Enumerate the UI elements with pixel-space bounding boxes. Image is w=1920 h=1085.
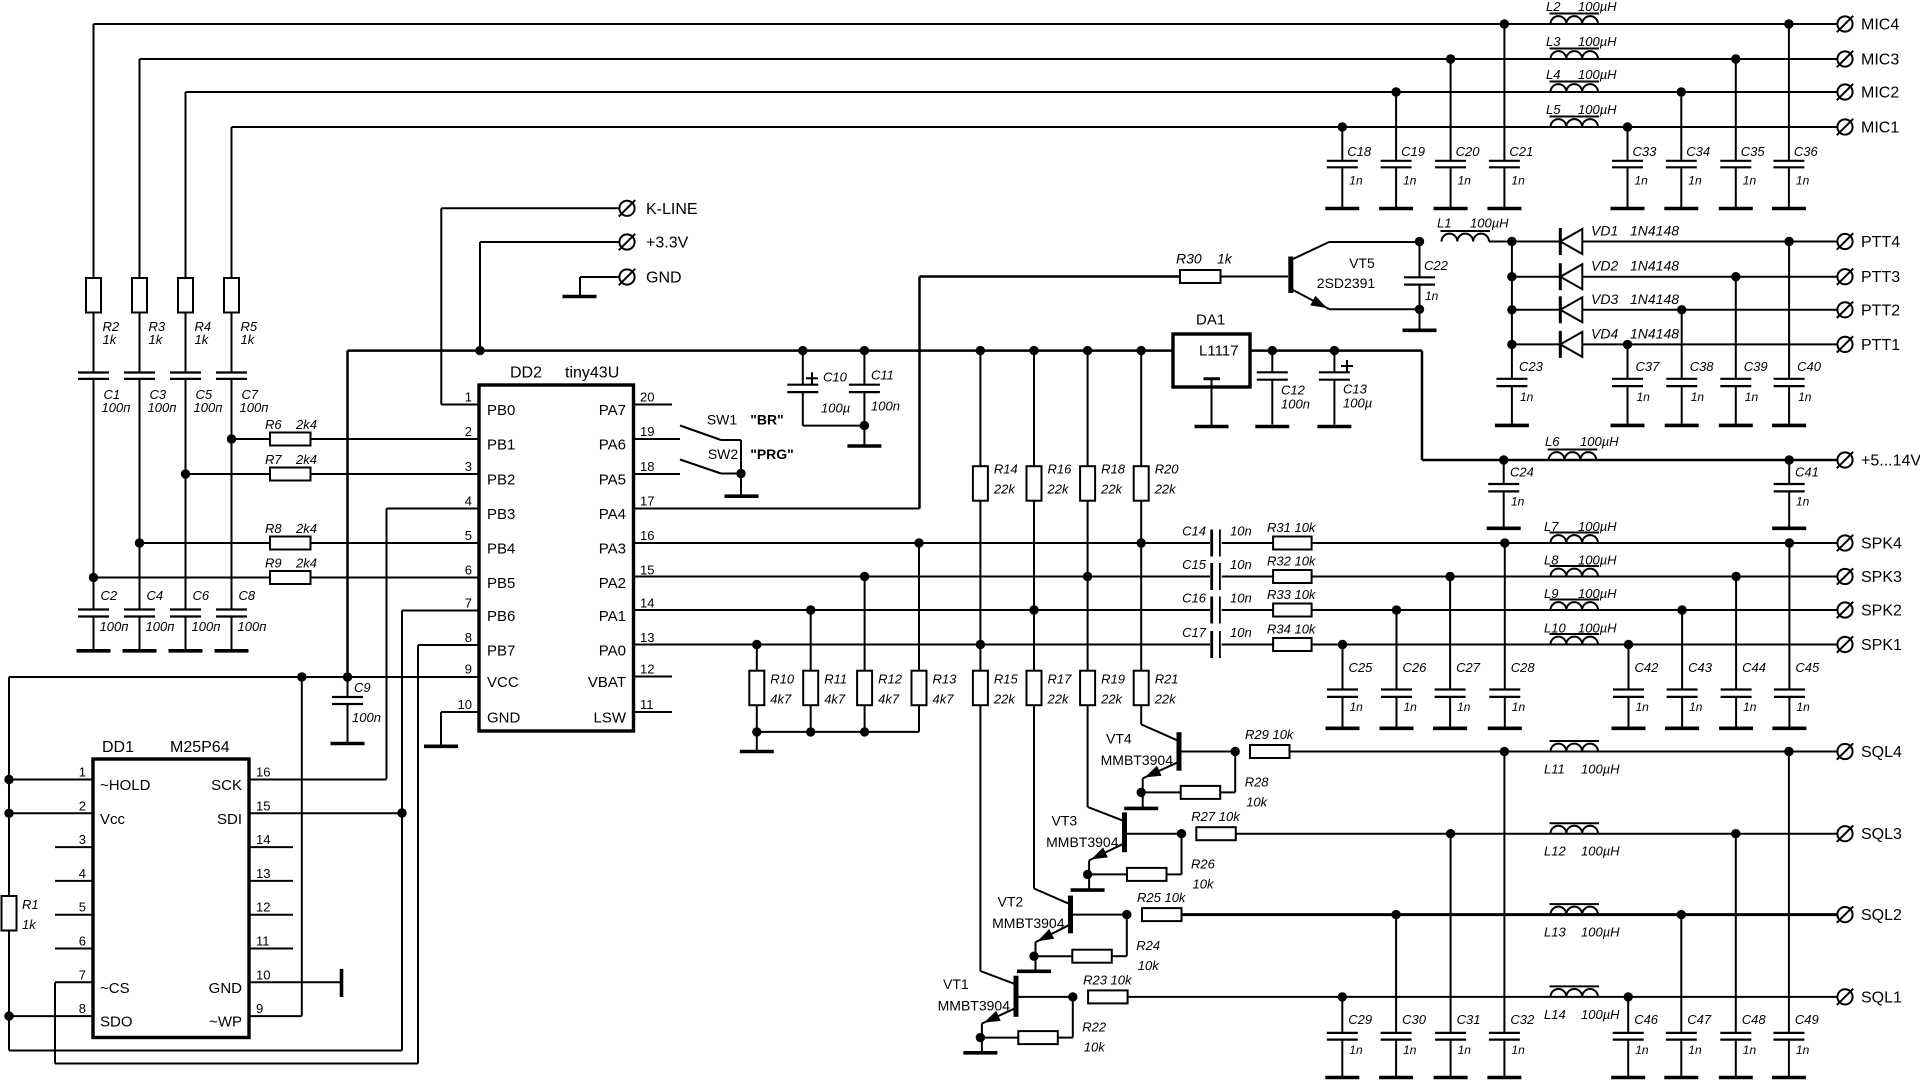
wire R11 vertical <box>810 610 812 732</box>
resistor R17 22k <box>1027 671 1042 706</box>
svg-text:1n: 1n <box>1635 174 1649 188</box>
svg-text:1n: 1n <box>1637 390 1651 404</box>
capacitor C24 <box>1499 455 1508 464</box>
svg-text:100µH: 100µH <box>1578 67 1617 82</box>
svg-text:4k7: 4k7 <box>770 692 792 707</box>
svg-text:SCK: SCK <box>211 777 242 794</box>
capacitor C39 <box>1735 277 1737 379</box>
capacitor C38 <box>1681 310 1683 379</box>
svg-text:1n: 1n <box>1511 174 1525 188</box>
svg-text:PTT1: PTT1 <box>1861 337 1900 354</box>
wire R13 vertical <box>918 543 920 732</box>
ground under C28 <box>1488 726 1522 730</box>
capacitor C7 <box>216 371 247 373</box>
diode VD2 1N4148 <box>1512 276 1560 278</box>
ground under C21 <box>1487 207 1521 211</box>
wire R17 vertical <box>1033 610 1035 889</box>
svg-text:+3.3V: +3.3V <box>646 235 689 252</box>
svg-text:GND: GND <box>487 710 521 727</box>
svg-text:1n: 1n <box>1520 390 1534 404</box>
svg-text:7: 7 <box>465 596 472 611</box>
svg-text:1n: 1n <box>1458 1043 1472 1057</box>
svg-text:DD2: DD2 <box>510 365 542 382</box>
svg-text:C37: C37 <box>1636 359 1661 374</box>
svg-text:100п: 100п <box>146 619 175 634</box>
wire C6 to ground <box>185 617 187 650</box>
resistor R34 10k <box>1273 638 1312 651</box>
svg-text:2: 2 <box>79 798 86 813</box>
wire R16 vertical <box>1029 346 1038 355</box>
terminal MIC3 <box>1837 51 1852 66</box>
svg-text:~HOLD: ~HOLD <box>100 777 151 794</box>
resistor R26 10k <box>1089 873 1127 875</box>
svg-text:R17: R17 <box>1048 672 1073 687</box>
wire R4 to C5 <box>185 313 187 373</box>
svg-text:R24: R24 <box>1136 938 1160 953</box>
switch SW2 PRG <box>680 460 721 474</box>
ground under DA1 <box>1195 425 1229 429</box>
wire VT1 emitter <box>981 1024 983 1052</box>
wire DD1 pin10 GND <box>249 981 340 983</box>
svg-text:R23 10k: R23 10k <box>1083 972 1133 987</box>
svg-text:R25 10k: R25 10k <box>1137 890 1187 905</box>
svg-text:100п: 100п <box>100 619 129 634</box>
svg-text:C27: C27 <box>1456 660 1481 675</box>
ground under C4 <box>123 649 157 653</box>
svg-text:1k: 1k <box>1217 251 1233 267</box>
svg-text:C44: C44 <box>1742 660 1766 675</box>
resistor R28 10k <box>1143 791 1181 793</box>
inductor L5 100uH <box>1551 119 1599 127</box>
svg-text:1: 1 <box>79 765 86 780</box>
svg-text:C49: C49 <box>1795 1012 1819 1027</box>
svg-text:1n: 1n <box>1457 700 1471 714</box>
svg-text:11: 11 <box>256 934 270 949</box>
wire DD1 pin1 ~HOLD <box>9 779 93 781</box>
IC DA1 L1117 <box>1173 334 1250 387</box>
ground under C46 <box>1611 1076 1645 1080</box>
wire R1 to SDO <box>8 931 10 1051</box>
svg-text:16: 16 <box>640 528 654 543</box>
svg-text:L12: L12 <box>1544 844 1566 859</box>
svg-text:1n: 1n <box>1689 700 1703 714</box>
capacitor C3 <box>124 371 155 373</box>
wire VT2 emitter <box>1035 942 1037 970</box>
svg-text:1n: 1n <box>1636 700 1650 714</box>
svg-text:12: 12 <box>640 662 654 677</box>
svg-text:1k: 1k <box>22 917 37 932</box>
svg-text:100n: 100n <box>1281 397 1310 412</box>
svg-text:22k: 22k <box>1154 692 1177 707</box>
svg-text:1n: 1n <box>1691 390 1705 404</box>
svg-text:PB2: PB2 <box>487 472 515 489</box>
wire R22 up to base <box>1058 1037 1073 1039</box>
ground under C26 <box>1380 726 1414 730</box>
wire C17 to R34 <box>1222 644 1273 646</box>
ground under C22 <box>1403 328 1437 332</box>
ground under C39 <box>1719 424 1753 428</box>
ground under C13 <box>1317 425 1351 429</box>
svg-text:100п: 100п <box>194 400 223 415</box>
wire R33 to SPK2 terminal <box>1312 609 1837 611</box>
ground under VT1 emitter <box>963 1051 997 1055</box>
wire R6 left <box>232 438 271 440</box>
svg-text:1k: 1k <box>195 332 210 347</box>
svg-text:1n: 1n <box>1512 700 1526 714</box>
wire DD2 pin10 GND <box>441 711 479 713</box>
svg-text:R8: R8 <box>265 521 282 536</box>
wire VD4 to PTT1 terminal <box>1582 343 1837 345</box>
svg-text:DA1: DA1 <box>1196 312 1225 329</box>
svg-text:L4: L4 <box>1546 67 1560 82</box>
svg-text:100µH: 100µH <box>1578 102 1617 117</box>
svg-text:1k: 1k <box>149 332 164 347</box>
ground under C34 <box>1664 207 1698 211</box>
svg-text:18: 18 <box>640 459 654 474</box>
resistor R5 <box>224 278 239 313</box>
svg-text:R18: R18 <box>1101 462 1126 477</box>
resistor R16 22k <box>1027 466 1042 501</box>
svg-text:2k4: 2k4 <box>295 452 317 467</box>
svg-text:L3: L3 <box>1546 34 1561 49</box>
svg-text:VT1: VT1 <box>943 976 969 992</box>
wire DD2 pin19 PA6 stub <box>634 438 681 440</box>
wire R32 to SPK3 terminal <box>1312 576 1837 578</box>
svg-text:2k4: 2k4 <box>295 417 317 432</box>
svg-text:C36: C36 <box>1794 144 1819 159</box>
ground under C27 <box>1433 726 1467 730</box>
wire VD3 to PTT2 terminal <box>1582 309 1837 311</box>
capacitor C5 <box>170 371 201 373</box>
svg-text:R32 10k: R32 10k <box>1267 554 1317 569</box>
transistor VT4 MMBT3904 <box>1177 732 1182 771</box>
wire R5 column vertical <box>231 127 233 278</box>
svg-text:10n: 10n <box>1230 524 1252 539</box>
ground under VT3 emitter <box>1071 888 1105 892</box>
capacitor C45 <box>1788 543 1790 690</box>
wire R19 vertical <box>1087 577 1089 807</box>
wire C2 to ground <box>93 617 95 650</box>
svg-text:22k: 22k <box>1100 482 1123 497</box>
svg-text:L5: L5 <box>1546 102 1561 117</box>
svg-text:R15: R15 <box>994 672 1019 687</box>
resistor R18 22k <box>1080 466 1095 501</box>
svg-text:4: 4 <box>465 494 472 509</box>
resistor R6 <box>270 433 311 446</box>
wire DD1 pin 13 stub <box>249 880 293 882</box>
svg-text:6: 6 <box>79 934 86 949</box>
ground under C31 <box>1434 1076 1468 1080</box>
svg-text:R33 10k: R33 10k <box>1267 587 1317 602</box>
svg-text:13: 13 <box>640 630 654 645</box>
capacitor C36 <box>1784 19 1793 28</box>
IC DD1 M25P64 <box>93 759 249 1038</box>
wire DD1 pin2 Vcc <box>9 812 93 814</box>
svg-text:C17: C17 <box>1182 625 1207 640</box>
ground under C32 <box>1487 1076 1521 1080</box>
wire R23 to SQL1 <box>1128 996 1837 998</box>
wire +3.3V bus <box>348 349 1174 352</box>
svg-text:R22: R22 <box>1082 1020 1107 1035</box>
svg-text:C16: C16 <box>1182 591 1207 606</box>
diode VD4 1N4148 <box>1512 343 1560 345</box>
svg-text:C34: C34 <box>1686 144 1710 159</box>
svg-text:VT2: VT2 <box>998 894 1024 910</box>
wire C5 to C6 <box>185 379 187 610</box>
svg-text:R34 10k: R34 10k <box>1267 622 1317 637</box>
terminal PTT1 <box>1837 337 1852 352</box>
wire C1 to C2 <box>93 379 95 610</box>
transistor VT1 MMBT3904 <box>1014 976 1019 1017</box>
svg-text:tiny43U: tiny43U <box>565 365 619 382</box>
svg-text:L13: L13 <box>1544 925 1566 940</box>
wire DD1 pin 11 stub <box>249 948 293 950</box>
svg-text:100µH: 100µH <box>1581 1007 1620 1022</box>
svg-text:1n: 1n <box>1796 700 1810 714</box>
capacitor C19 <box>1391 87 1400 96</box>
svg-text:PA1: PA1 <box>599 608 626 625</box>
svg-text:1n: 1n <box>1511 495 1525 509</box>
svg-text:C12: C12 <box>1281 383 1306 398</box>
ground under C40 <box>1772 424 1806 428</box>
inductor L4 100uH <box>1551 84 1599 92</box>
svg-text:100µH: 100µH <box>1578 519 1617 534</box>
resistor R13 4k7 <box>912 671 927 706</box>
svg-text:1n: 1n <box>1743 700 1757 714</box>
ground under C18 <box>1325 207 1359 211</box>
svg-text:C6: C6 <box>193 588 210 603</box>
svg-text:4: 4 <box>79 866 86 881</box>
capacitor C37 <box>1627 344 1629 378</box>
svg-text:PA7: PA7 <box>599 402 626 419</box>
resistor R4 <box>178 278 193 313</box>
wire K-LINE <box>441 207 619 209</box>
svg-text:15: 15 <box>256 798 270 813</box>
terminal SPK4 <box>1837 535 1852 550</box>
wire DD1 pin 14 stub <box>249 846 293 848</box>
terminal SQL3 <box>1837 826 1852 841</box>
svg-text:100µH: 100µH <box>1578 586 1617 601</box>
wire R10 bottom to ground <box>756 732 758 750</box>
svg-text:MMBT3904: MMBT3904 <box>938 997 1011 1013</box>
resistor R31 10k <box>1273 537 1312 550</box>
svg-text:100µH: 100µH <box>1581 925 1620 940</box>
terminal PTT4 <box>1837 234 1852 249</box>
ground under C19 <box>1379 207 1413 211</box>
svg-text:C28: C28 <box>1511 660 1536 675</box>
svg-text:SDO: SDO <box>100 1014 133 1031</box>
svg-text:100п: 100п <box>102 400 131 415</box>
svg-text:PA0: PA0 <box>599 643 626 660</box>
svg-text:PA4: PA4 <box>599 506 626 523</box>
wire DD2 pin8 PB7 down <box>418 644 479 646</box>
svg-text:C33: C33 <box>1633 144 1658 159</box>
svg-text:R12: R12 <box>878 672 903 687</box>
svg-text:1n: 1n <box>1403 174 1417 188</box>
inductor L2 100uH <box>1551 16 1599 24</box>
wire PTT vertical <box>1511 242 1513 379</box>
wire R9 to DD2 <box>311 577 480 579</box>
svg-text:100п: 100п <box>240 400 269 415</box>
wire R10-R13 bottoms <box>757 731 919 733</box>
wire C4 to ground <box>139 617 141 650</box>
resistor R8 <box>270 537 311 550</box>
svg-text:L1117: L1117 <box>1199 343 1239 360</box>
ground under C37 <box>1611 424 1645 428</box>
wire MIC2 line <box>186 91 1838 93</box>
svg-text:100п: 100п <box>192 619 221 634</box>
svg-text:VT4: VT4 <box>1106 731 1132 747</box>
wire L1 to VD1 <box>1489 241 1560 243</box>
capacitor C31 <box>1450 834 1452 1033</box>
wire +5V line <box>1422 459 1837 462</box>
wire VT4 base lead <box>1181 751 1235 753</box>
wire VD2 to PTT3 terminal <box>1582 276 1837 278</box>
svg-text:VD1: VD1 <box>1591 223 1618 239</box>
ground under C38 <box>1665 424 1699 428</box>
svg-text:L14: L14 <box>1544 1007 1566 1022</box>
wire MIC1 line <box>232 126 1838 128</box>
wire PA2 line <box>634 576 1211 578</box>
capacitor C40 <box>1788 242 1790 379</box>
svg-text:1N4148: 1N4148 <box>1630 291 1679 307</box>
terminal K-LINE <box>619 201 634 216</box>
capacitor C46 <box>1627 997 1629 1033</box>
svg-text:C38: C38 <box>1690 359 1715 374</box>
resistor R14 22k <box>973 466 988 501</box>
svg-text:100µH: 100µH <box>1470 216 1509 231</box>
svg-text:MIC4: MIC4 <box>1861 17 1899 34</box>
svg-text:PTT4: PTT4 <box>1861 234 1900 251</box>
svg-text:R13: R13 <box>933 672 958 687</box>
wire C7 to C8 <box>231 379 233 610</box>
svg-text:100µH: 100µH <box>1581 762 1620 777</box>
resistor R3 <box>132 278 147 313</box>
svg-text:SQL4: SQL4 <box>1861 744 1902 761</box>
svg-text:L7: L7 <box>1544 519 1559 534</box>
wire DD2 pin9 VCC line <box>9 676 479 678</box>
capacitor C23 <box>1496 378 1527 380</box>
wire R34 to SPK1 terminal <box>1312 644 1837 646</box>
svg-text:MMBT3904: MMBT3904 <box>1046 834 1119 850</box>
wire PA1 line <box>634 609 1211 611</box>
ground under C12 <box>1255 425 1289 429</box>
resistor R7 <box>270 468 311 481</box>
svg-text:100µ: 100µ <box>1343 396 1372 411</box>
svg-text:16: 16 <box>256 765 270 780</box>
resistor R30 1k <box>1180 270 1221 283</box>
wire DD1 pin16 SCK <box>249 779 387 781</box>
svg-text:22k: 22k <box>1047 692 1070 707</box>
wire DD2 pin1 PB0 <box>441 404 479 406</box>
capacitor C16 series <box>1210 597 1213 624</box>
wire DD2 pin18 PA5 stub <box>634 473 681 475</box>
ground at GND terminal <box>563 295 597 299</box>
inductor L9 100uH <box>1551 602 1599 610</box>
terminal MIC4 <box>1837 16 1852 31</box>
svg-text:C41: C41 <box>1795 465 1819 480</box>
wire R20 vertical <box>1137 346 1146 355</box>
svg-text:15: 15 <box>640 563 654 578</box>
ground under switches <box>725 494 759 498</box>
wire R15 vertical <box>979 645 981 972</box>
wire R8 to DD2 <box>311 542 480 544</box>
svg-text:100µH: 100µH <box>1578 0 1617 14</box>
svg-text:17: 17 <box>640 494 654 509</box>
svg-text:K-LINE: K-LINE <box>646 201 698 218</box>
wire R3 to C3 <box>139 313 141 373</box>
svg-text:1n: 1n <box>1458 174 1472 188</box>
capacitor C10 <box>798 346 807 355</box>
svg-text:C29: C29 <box>1348 1012 1372 1027</box>
svg-text:C13: C13 <box>1343 382 1368 397</box>
wire R2 column vertical <box>93 24 95 278</box>
svg-text:"PRG": "PRG" <box>750 446 794 462</box>
svg-text:100µH: 100µH <box>1580 434 1619 449</box>
capacitor C22 <box>1415 237 1424 246</box>
ground under C29 <box>1325 1076 1359 1080</box>
svg-text:8: 8 <box>79 1001 86 1016</box>
wire DD2 pin12 VBAT stub <box>634 676 673 678</box>
svg-text:1n: 1n <box>1688 174 1702 188</box>
terminal GND <box>619 269 634 284</box>
ground under C23 <box>1495 424 1529 428</box>
svg-text:~CS: ~CS <box>100 980 130 997</box>
svg-text:PB6: PB6 <box>487 608 515 625</box>
capacitor C29 <box>1341 997 1343 1033</box>
wire R4 column vertical <box>185 92 187 278</box>
svg-text:10k: 10k <box>1138 958 1160 973</box>
svg-text:MIC3: MIC3 <box>1861 52 1899 69</box>
ground under VT4 emitter <box>1124 807 1158 811</box>
svg-text:+5...14V: +5...14V <box>1861 453 1920 470</box>
svg-text:100п: 100п <box>238 619 267 634</box>
svg-text:R1: R1 <box>22 897 39 912</box>
svg-text:11: 11 <box>640 697 654 712</box>
svg-text:C40: C40 <box>1797 359 1822 374</box>
terminal SQL4 <box>1837 744 1852 759</box>
svg-text:R27 10k: R27 10k <box>1191 809 1241 824</box>
svg-text:PB1: PB1 <box>487 437 515 454</box>
wire DA1 output rail <box>1250 349 1422 352</box>
svg-text:C14: C14 <box>1182 524 1206 539</box>
svg-text:Vcc: Vcc <box>100 811 126 828</box>
wire C14 to R31 <box>1222 542 1273 544</box>
svg-text:10k: 10k <box>1084 1040 1106 1055</box>
svg-text:C25: C25 <box>1349 660 1374 675</box>
svg-text:SW1: SW1 <box>707 412 738 428</box>
resistor R23 10k <box>1088 990 1128 1003</box>
capacitor C28 <box>1504 543 1506 690</box>
svg-text:PA3: PA3 <box>599 541 626 558</box>
capacitor C49 <box>1788 752 1790 1033</box>
wire C8 to ground <box>231 617 233 650</box>
ground under C9 <box>331 742 365 746</box>
svg-text:100µH: 100µH <box>1578 553 1617 568</box>
svg-text:1n: 1n <box>1511 1043 1525 1057</box>
svg-text:SQL1: SQL1 <box>1861 989 1902 1006</box>
svg-text:1k: 1k <box>103 332 118 347</box>
ground under C48 <box>1719 1076 1753 1080</box>
ground under C35 <box>1719 207 1753 211</box>
svg-text:PA5: PA5 <box>599 472 626 489</box>
resistor R33 10k <box>1273 604 1312 617</box>
resistor R9 <box>270 571 311 584</box>
inductor L3 100uH <box>1551 51 1599 59</box>
svg-text:R31 10k: R31 10k <box>1267 520 1317 535</box>
svg-text:~WP: ~WP <box>209 1014 242 1031</box>
svg-text:1: 1 <box>465 390 472 405</box>
